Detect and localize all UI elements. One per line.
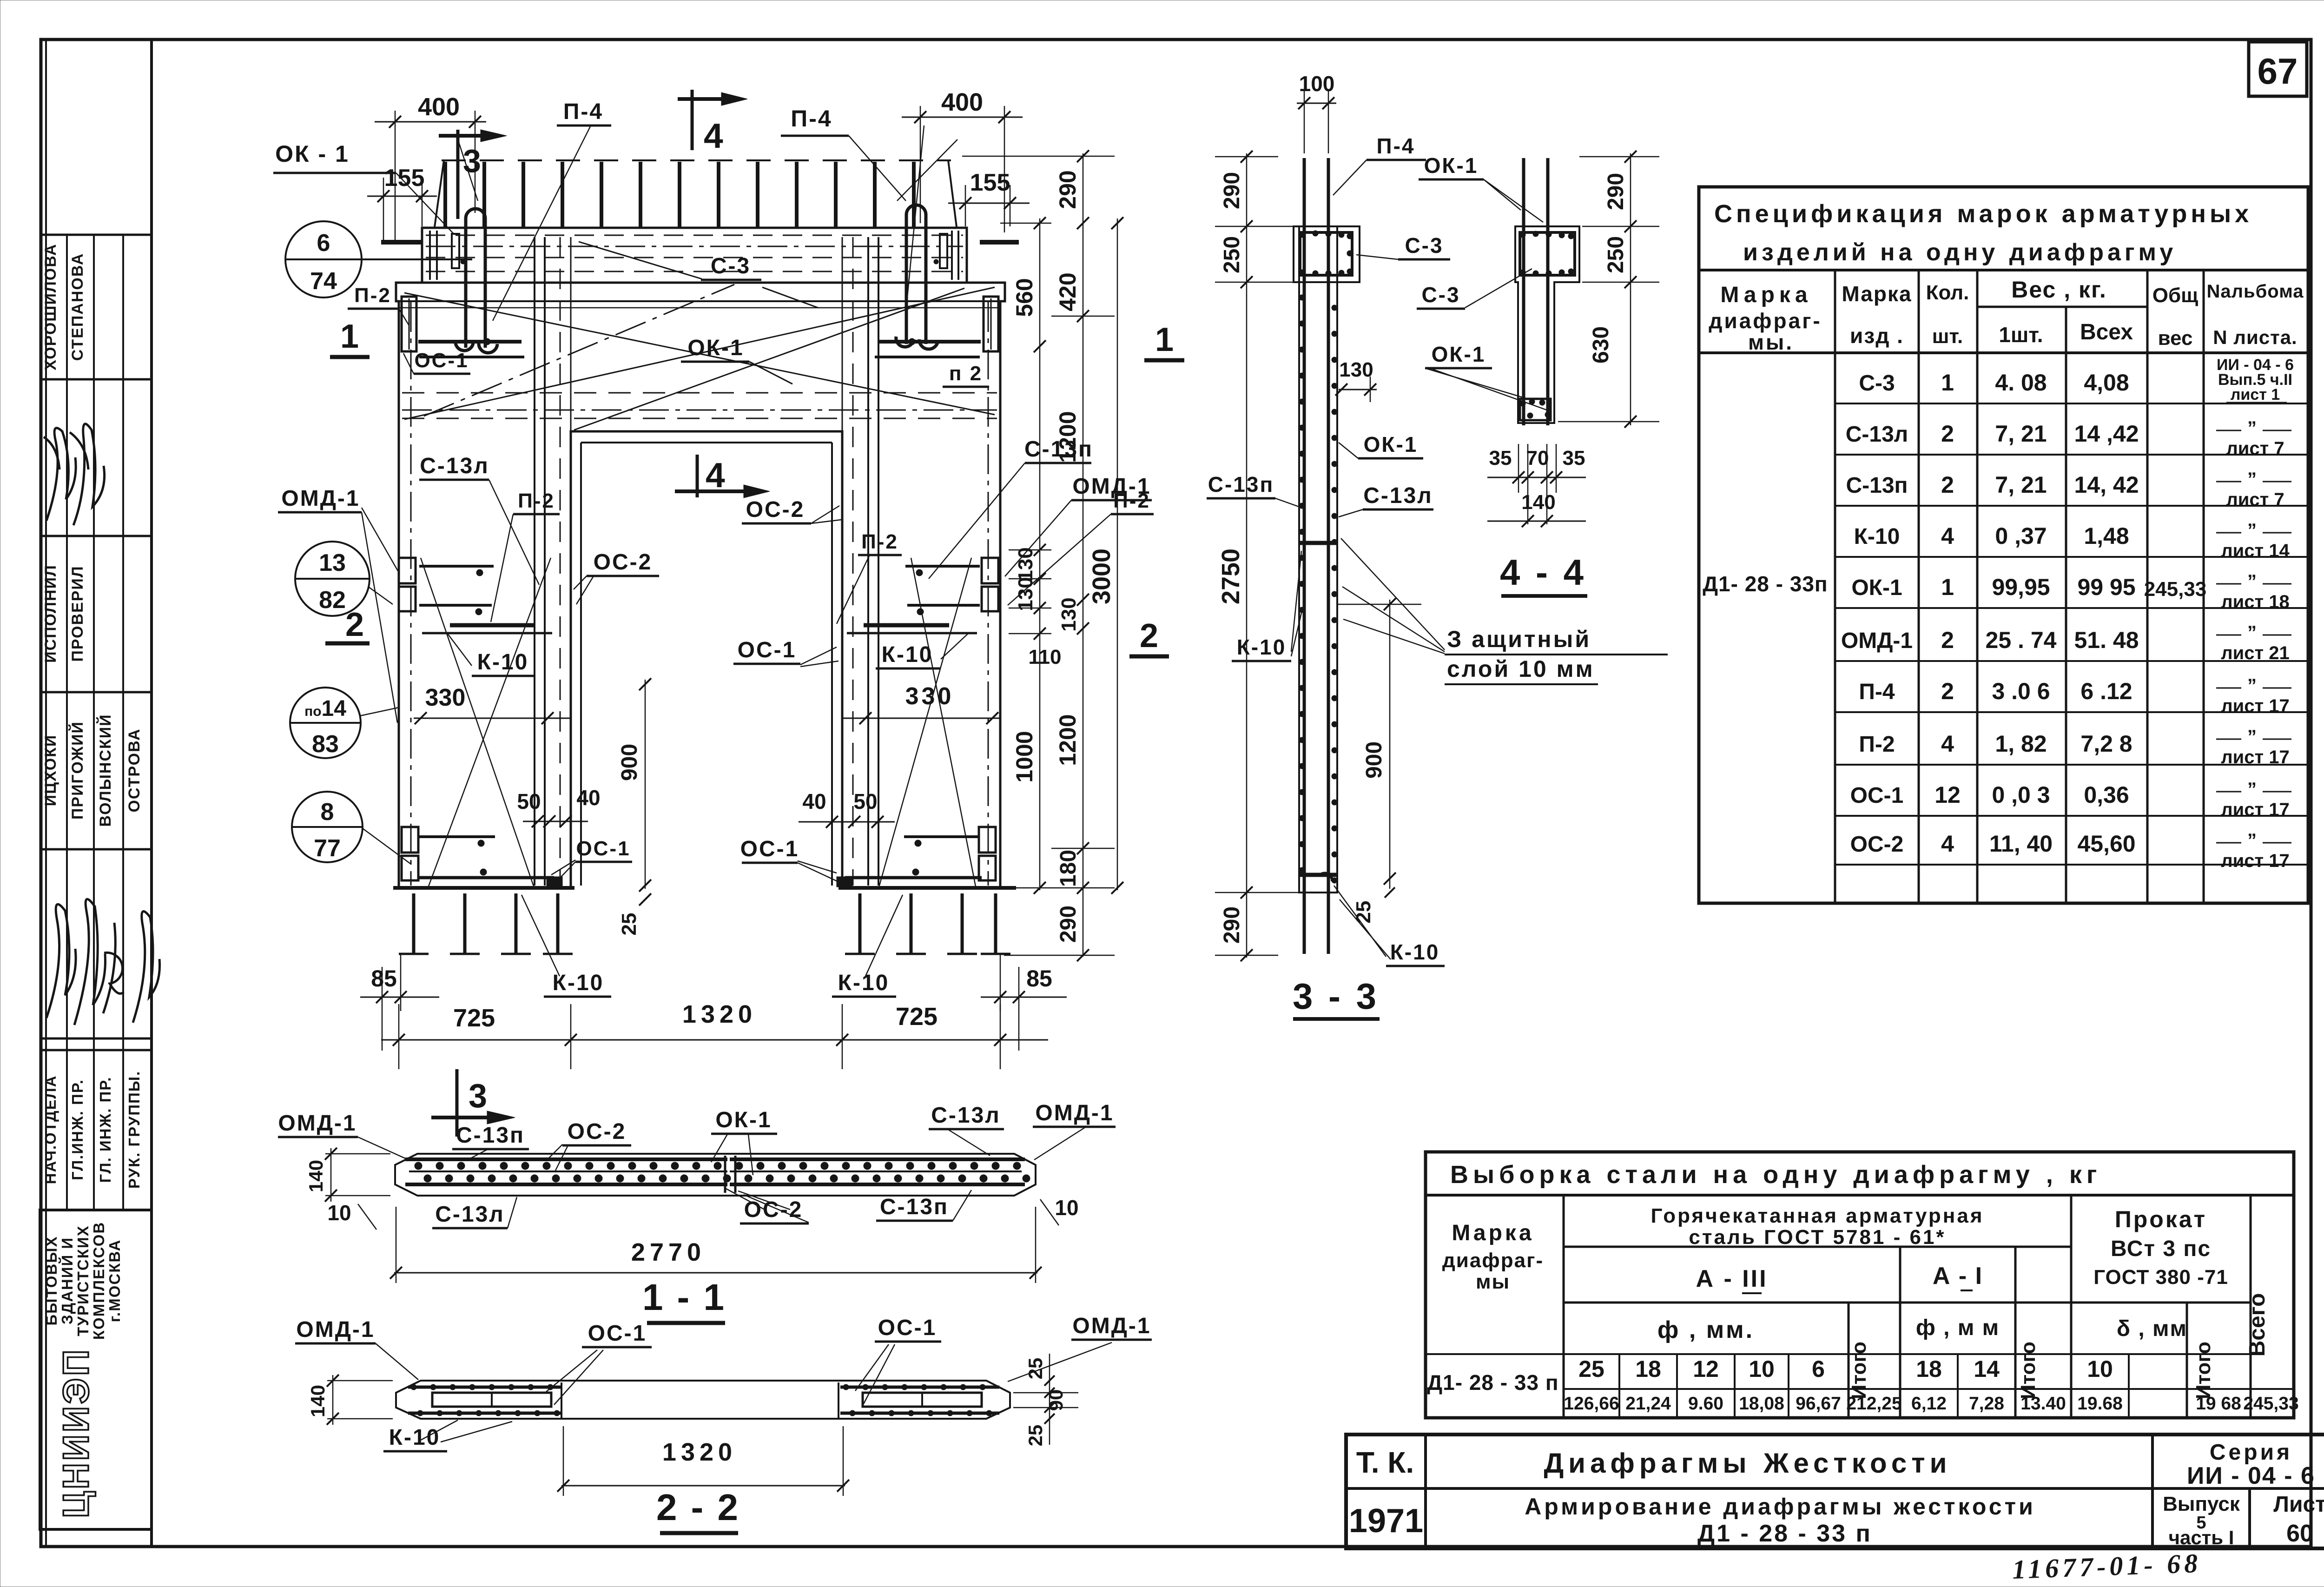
position circle 8/77 xyxy=(292,792,363,862)
svg-text:С-13л: С-13л xyxy=(420,454,489,478)
svg-text:П-2: П-2 xyxy=(1859,732,1895,757)
svg-text:2770: 2770 xyxy=(631,1238,706,1266)
slab keyway left xyxy=(452,234,459,268)
svg-text:ф , мм.: ф , мм. xyxy=(1657,1316,1754,1343)
svg-text:99 95: 99 95 xyxy=(2077,574,2135,600)
svg-text:2: 2 xyxy=(1941,678,1954,704)
svg-text:С-13л: С-13л xyxy=(1363,483,1433,508)
svg-text:ОС-2: ОС-2 xyxy=(594,550,653,575)
dim 330 left xyxy=(414,718,572,719)
svg-text:18: 18 xyxy=(1635,1356,1661,1382)
svg-text:35: 35 xyxy=(1489,447,1512,469)
svg-text:3 .0 6: 3 .0 6 xyxy=(1992,678,2050,704)
svg-text:диафраг-: диафраг- xyxy=(1442,1249,1544,1272)
svg-text:6: 6 xyxy=(1812,1356,1825,1382)
leader diagonals in legs xyxy=(421,558,535,889)
dim 900 left xyxy=(645,680,646,889)
svg-text:ПРИГОЖИЙ: ПРИГОЖИЙ xyxy=(68,721,86,820)
svg-text:1: 1 xyxy=(340,318,359,355)
dim 140 (1-1) xyxy=(330,1148,332,1202)
svg-text:ВОЛЫНСКИЙ: ВОЛЫНСКИЙ xyxy=(96,714,114,827)
svg-text:ИИ - 04 - 6: ИИ - 04 - 6 xyxy=(2187,1462,2315,1489)
corner spacer blob right xyxy=(837,877,852,887)
svg-text:лист 17: лист 17 xyxy=(2221,800,2289,820)
bottom main dim 725 1320 725 xyxy=(381,1039,1048,1041)
svg-text:19.68: 19.68 xyxy=(2077,1394,2123,1414)
svg-text:10: 10 xyxy=(1055,1196,1078,1220)
svg-text:9.60: 9.60 xyxy=(1688,1394,1723,1414)
svg-text:Диафрагмы Жесткости: Диафрагмы Жесткости xyxy=(1544,1448,1951,1479)
slab keyway right xyxy=(940,234,947,268)
svg-text:Итого: Итого xyxy=(2017,1342,2040,1399)
section 2-2 right cage xyxy=(840,1386,999,1389)
leader diagonals across beam xyxy=(404,293,995,415)
svg-text:С-3: С-3 xyxy=(711,254,751,278)
svg-text:лист 7: лист 7 xyxy=(2226,438,2284,459)
svg-text:290: 290 xyxy=(1056,906,1081,943)
svg-text:ВСт 3 пс: ВСт 3 пс xyxy=(2111,1237,2211,1261)
section 4-4 right dim chain xyxy=(1630,153,1631,425)
svg-text:25: 25 xyxy=(1352,901,1375,924)
elevation top key ticks band xyxy=(442,159,951,161)
svg-text:250: 250 xyxy=(1604,236,1628,273)
svg-text:4: 4 xyxy=(706,456,725,495)
P-2 channel left top xyxy=(402,297,416,351)
svg-text:П-2: П-2 xyxy=(354,284,391,307)
dim 400 left xyxy=(375,121,486,123)
svg-text:ИЦХОКИ: ИЦХОКИ xyxy=(42,734,59,807)
svg-text:77: 77 xyxy=(314,835,341,862)
section mark 3 top xyxy=(456,130,460,219)
svg-text:”: ” xyxy=(2247,571,2257,592)
svg-text:слой 10 мм: слой 10 мм xyxy=(1447,656,1595,682)
svg-text:4,08: 4,08 xyxy=(2084,370,2129,396)
svg-text:С-3: С-3 xyxy=(1405,233,1443,258)
svg-text:2 - 2: 2 - 2 xyxy=(656,1487,740,1528)
svg-text:П-4: П-4 xyxy=(791,106,832,132)
svg-text:1200: 1200 xyxy=(1055,411,1081,463)
sidebar signatures row 2 xyxy=(46,904,76,1018)
svg-text:С-3: С-3 xyxy=(1859,371,1895,396)
svg-text:1200: 1200 xyxy=(1055,714,1081,766)
svg-text:ОК-1: ОК-1 xyxy=(1432,342,1486,366)
svg-text:6 .12: 6 .12 xyxy=(2080,678,2132,704)
svg-text:83: 83 xyxy=(312,731,339,758)
svg-text:”: ” xyxy=(2247,779,2257,800)
elevation beam dashed rebar lines xyxy=(402,392,997,394)
svg-text:δ , мм: δ , мм xyxy=(2117,1316,2187,1341)
svg-text:140: 140 xyxy=(307,1385,329,1417)
section 4-4 bottom dims 35 70 35 xyxy=(1487,477,1586,478)
svg-text:Выборка стали на одну: Выборка стали на одну диафрагму , кг xyxy=(1450,1161,2101,1189)
svg-text:6,12: 6,12 xyxy=(1911,1394,1947,1414)
svg-text:Д1 - 28 - 33 п: Д1 - 28 - 33 п xyxy=(1697,1520,1872,1547)
svg-text:96,67: 96,67 xyxy=(1796,1394,1841,1414)
svg-text:14: 14 xyxy=(1974,1356,2000,1382)
elevation left shoulder xyxy=(396,283,422,888)
sidebar org box xyxy=(40,1210,152,1529)
svg-text:12: 12 xyxy=(1693,1356,1719,1382)
svg-text:ПРОВЕРИЛ: ПРОВЕРИЛ xyxy=(69,565,86,661)
svg-text:10: 10 xyxy=(1749,1356,1775,1382)
svg-text:ОМД-1: ОМД-1 xyxy=(1072,1314,1151,1338)
svg-text:2: 2 xyxy=(1941,421,1954,447)
svg-text:К-10: К-10 xyxy=(1237,635,1287,659)
svg-text:ОС-1: ОС-1 xyxy=(878,1316,937,1340)
svg-text:560: 560 xyxy=(1011,278,1037,317)
svg-text:К-10: К-10 xyxy=(1390,940,1440,964)
svg-text:Марка: Марка xyxy=(1452,1221,1534,1245)
svg-text:П-2: П-2 xyxy=(861,530,898,553)
svg-text:99,95: 99,95 xyxy=(1992,574,2050,600)
section 1-1 mesh bars right xyxy=(730,1157,1025,1161)
svg-text:Всех: Всех xyxy=(2080,320,2133,344)
section 4-4 rebar bars xyxy=(1522,158,1525,425)
svg-text:ОСТРОВА: ОСТРОВА xyxy=(125,728,143,812)
elevation right shoulder xyxy=(967,283,1005,888)
svg-text:Горячекатанная арматурная: Горячекатанная арматурная xyxy=(1651,1204,1984,1227)
svg-text:С-13л: С-13л xyxy=(931,1103,1001,1128)
svg-text:40: 40 xyxy=(802,789,826,813)
svg-text:3000: 3000 xyxy=(1088,549,1116,604)
section 3-3 left dim chain xyxy=(1246,153,1248,958)
svg-text:диафраг-: диафраг- xyxy=(1709,309,1822,333)
svg-text:”: ” xyxy=(2247,469,2257,489)
svg-text:N листа.: N листа. xyxy=(2213,326,2297,348)
svg-text:85: 85 xyxy=(371,965,397,992)
svg-text:мы.: мы. xyxy=(1748,330,1794,354)
svg-text:1,48: 1,48 xyxy=(2084,523,2129,549)
svg-text:П-4: П-4 xyxy=(1377,134,1415,158)
section 4-4 dim 140 xyxy=(1487,521,1586,522)
svg-text:0 ,0 3: 0 ,0 3 xyxy=(1992,782,2050,808)
svg-text:К-10: К-10 xyxy=(389,1425,441,1450)
svg-text:Д1- 28 - 33п: Д1- 28 - 33п xyxy=(1703,572,1828,596)
svg-text:лист 1: лист 1 xyxy=(2231,386,2280,403)
svg-text:лист 17: лист 17 xyxy=(2221,696,2289,716)
svg-text:ОС-1: ОС-1 xyxy=(740,837,799,861)
svg-text:С-13п: С-13п xyxy=(1208,472,1274,496)
svg-text:330: 330 xyxy=(905,683,954,710)
svg-text:лист 17: лист 17 xyxy=(2221,851,2289,871)
svg-text:Итого: Итого xyxy=(1848,1342,1870,1399)
svg-text:14, 42: 14, 42 xyxy=(2074,472,2139,498)
section 3-3 dim 100 xyxy=(1297,103,1336,104)
svg-text:ОС-2: ОС-2 xyxy=(568,1119,627,1144)
svg-text:Nальбома: Nальбома xyxy=(2206,281,2304,302)
svg-text:1000: 1000 xyxy=(1011,731,1037,782)
elevation right leg rebar verticals xyxy=(988,302,989,886)
section mark 4 middle xyxy=(696,455,699,497)
dim 330 right xyxy=(841,718,999,719)
svg-text:50: 50 xyxy=(517,789,541,813)
section mark 4 top xyxy=(691,90,694,150)
section 3-3 tie bars K-10 xyxy=(1299,541,1337,545)
svg-text:С-3: С-3 xyxy=(1421,283,1460,307)
svg-text:130: 130 xyxy=(1014,547,1037,581)
svg-text:Итого: Итого xyxy=(2192,1342,2215,1399)
svg-text:ОС-1: ОС-1 xyxy=(1850,783,1904,808)
right leg spacer bars xyxy=(878,340,981,344)
sidebar row lines xyxy=(41,234,152,236)
section 2-2 outline xyxy=(396,1381,1010,1419)
section 1-1 splice verticals xyxy=(724,1156,726,1193)
svg-text:3: 3 xyxy=(469,1078,487,1115)
svg-text:245,33: 245,33 xyxy=(2243,1394,2298,1414)
dim 1320 (2-2) xyxy=(561,1485,845,1487)
section mark 3 bottom xyxy=(456,1069,459,1137)
svg-text:лист 17: лист 17 xyxy=(2221,747,2289,767)
dim 140 (2-2) xyxy=(332,1375,334,1425)
dim 25 left xyxy=(639,893,651,906)
steel table frame xyxy=(1426,1152,2294,1418)
svg-text:0,36: 0,36 xyxy=(2084,782,2129,808)
svg-text:1320: 1320 xyxy=(662,1438,737,1466)
svg-text:725: 725 xyxy=(896,1003,938,1031)
svg-text:К-10: К-10 xyxy=(553,971,604,995)
elevation right leg base xyxy=(838,886,1016,890)
svg-text:лист 18: лист 18 xyxy=(2221,592,2289,612)
svg-text:Кол.: Кол. xyxy=(1926,281,1969,304)
svg-text:110: 110 xyxy=(1029,646,1062,668)
svg-text:330: 330 xyxy=(425,684,466,711)
svg-text:ОМД-1: ОМД-1 xyxy=(1841,628,1913,653)
right dims (2-2) xyxy=(1049,1354,1050,1445)
svg-text:4: 4 xyxy=(1941,523,1954,549)
svg-text:г.МОСКВА: г.МОСКВА xyxy=(106,1239,123,1322)
svg-text:35: 35 xyxy=(1563,447,1585,469)
svg-text:ИСПОЛНИЛ: ИСПОЛНИЛ xyxy=(42,564,59,663)
svg-text:130: 130 xyxy=(1014,577,1037,611)
svg-text:Прокат: Прокат xyxy=(2115,1206,2207,1232)
svg-text:ЦНИИЭП: ЦНИИЭП xyxy=(55,1348,96,1518)
svg-text:60: 60 xyxy=(2286,1520,2313,1547)
svg-text:1: 1 xyxy=(1155,321,1174,358)
svg-text:ОС-1: ОС-1 xyxy=(588,1321,647,1346)
svg-text:ОМД-1: ОМД-1 xyxy=(296,1317,375,1342)
svg-text:290: 290 xyxy=(1604,173,1628,210)
sidebar signatures row 1 xyxy=(44,428,76,521)
svg-text:”: ” xyxy=(2247,830,2257,851)
svg-text:”: ” xyxy=(2247,675,2257,696)
svg-text:725: 725 xyxy=(453,1004,495,1032)
svg-text:ОС-2: ОС-2 xyxy=(1850,832,1904,857)
svg-text:400: 400 xyxy=(418,93,460,121)
elevation right leg footing ticks xyxy=(858,893,862,954)
svg-text:ХОРОШИЛОВА: ХОРОШИЛОВА xyxy=(42,243,59,370)
svg-text:1, 82: 1, 82 xyxy=(1995,731,2047,757)
svg-text:”: ” xyxy=(2247,622,2257,643)
svg-text:8: 8 xyxy=(321,799,334,826)
svg-text:1: 1 xyxy=(1941,370,1954,396)
section 3-3 dim 900 xyxy=(1389,600,1391,889)
svg-text:18,08: 18,08 xyxy=(1739,1394,1784,1414)
svg-text:400: 400 xyxy=(941,88,983,116)
svg-text:НАЧ.ОТДЕЛА: НАЧ.ОТДЕЛА xyxy=(42,1075,59,1184)
svg-text:4: 4 xyxy=(1941,831,1954,857)
svg-text:Марка: Марка xyxy=(1842,282,1912,306)
svg-text:10: 10 xyxy=(2087,1356,2113,1382)
svg-text:11, 40: 11, 40 xyxy=(1989,831,2053,857)
section 4-4 outline xyxy=(1515,226,1579,423)
svg-text:Лист: Лист xyxy=(2273,1492,2324,1517)
svg-text:ОК - 1: ОК - 1 xyxy=(275,141,350,167)
svg-text:ГЛ.ИНЖ. ПР.: ГЛ.ИНЖ. ПР. xyxy=(69,1079,86,1180)
right dim chain 2 xyxy=(1083,153,1084,957)
svg-text:С-13л: С-13л xyxy=(1846,422,1908,447)
OMD-1 plate right upper xyxy=(982,558,998,583)
svg-text:290: 290 xyxy=(1055,170,1081,209)
svg-text:Спецификация марок арматур: Спецификация марок арматурных xyxy=(1714,200,2252,228)
svg-text:изд .: изд . xyxy=(1850,324,1904,348)
svg-text:155: 155 xyxy=(970,169,1010,196)
dim 50 40 left xyxy=(523,821,588,822)
section 4-4 foot dots xyxy=(1520,399,1551,420)
elevation top slab xyxy=(422,228,967,283)
svg-text:ГОСТ 380 -71: ГОСТ 380 -71 xyxy=(2093,1266,2228,1289)
svg-text:14 ,42: 14 ,42 xyxy=(2074,421,2139,447)
svg-text:67: 67 xyxy=(2258,51,2298,92)
svg-text:С-13п: С-13п xyxy=(1846,473,1908,498)
spec table row lines xyxy=(1835,403,2204,404)
svg-text:А - III: А - III xyxy=(1696,1265,1768,1292)
svg-text:25: 25 xyxy=(1024,1358,1046,1380)
svg-text:ОС-1: ОС-1 xyxy=(576,837,630,860)
svg-text:3: 3 xyxy=(463,143,481,179)
svg-text:КОМПЛЕКСОВ: КОМПЛЕКСОВ xyxy=(90,1222,107,1340)
svg-text:85: 85 xyxy=(1026,965,1052,992)
svg-text:ф , м м: ф , м м xyxy=(1916,1316,2000,1340)
svg-text:Общ: Общ xyxy=(2152,284,2199,307)
svg-text:лист 14: лист 14 xyxy=(2221,541,2290,561)
svg-text:212,25: 212,25 xyxy=(1846,1394,1901,1414)
svg-text:19 68: 19 68 xyxy=(2196,1394,2241,1414)
svg-text:ОК-1: ОК-1 xyxy=(1424,153,1479,178)
OMD-1 plate left upper xyxy=(399,558,416,583)
svg-text:630: 630 xyxy=(1589,326,1613,364)
svg-text:290: 290 xyxy=(1220,906,1244,944)
svg-text:82: 82 xyxy=(319,587,346,614)
svg-text:Т. К.: Т. К. xyxy=(1356,1446,1414,1479)
svg-text:0 ,37: 0 ,37 xyxy=(1995,523,2047,549)
svg-text:40: 40 xyxy=(576,786,600,810)
svg-text:1шт.: 1шт. xyxy=(1999,323,2043,347)
position circle 13/82 xyxy=(295,542,370,616)
svg-text:ОМД-1: ОМД-1 xyxy=(278,1111,357,1136)
dim 155 right xyxy=(948,203,1030,204)
svg-text:7, 21: 7, 21 xyxy=(1995,421,2047,447)
svg-text:часть I: часть I xyxy=(2169,1527,2234,1548)
svg-text:К-10: К-10 xyxy=(838,971,890,995)
section 3-3 dim 130 xyxy=(1339,389,1377,390)
svg-text:сталь ГОСТ 5781 - 61*: сталь ГОСТ 5781 - 61* xyxy=(1689,1226,1946,1249)
svg-text:4: 4 xyxy=(1941,731,1954,757)
elevation left leg base xyxy=(393,886,574,890)
svg-text:18: 18 xyxy=(1916,1356,1942,1382)
svg-text:10: 10 xyxy=(327,1201,351,1225)
svg-text:13.40: 13.40 xyxy=(2020,1394,2066,1414)
svg-text:П-4: П-4 xyxy=(1859,680,1895,704)
OMD-1 plate left lower xyxy=(402,827,418,853)
sidebar column lines xyxy=(66,235,68,1210)
svg-text:25 . 74: 25 . 74 xyxy=(1986,627,2057,653)
elevation opening xyxy=(571,431,842,888)
svg-text:”: ” xyxy=(2247,520,2257,541)
svg-text:4 - 4: 4 - 4 xyxy=(1500,552,1586,593)
svg-text:45,60: 45,60 xyxy=(2077,831,2135,857)
hairpin bar P-4 left xyxy=(466,209,485,348)
svg-text:П-2: П-2 xyxy=(1113,489,1150,512)
svg-text:900: 900 xyxy=(1362,741,1386,779)
right dim chain 1 xyxy=(1039,218,1041,890)
svg-text:ОС-2: ОС-2 xyxy=(746,497,805,522)
svg-text:50: 50 xyxy=(853,789,877,813)
svg-text:Выпуск: Выпуск xyxy=(2163,1493,2240,1515)
svg-text:лист 21: лист 21 xyxy=(2221,643,2289,663)
svg-text:130: 130 xyxy=(1339,358,1373,381)
svg-text:130: 130 xyxy=(1057,597,1080,631)
svg-text:А - I: А - I xyxy=(1933,1263,1983,1289)
sidebar right border xyxy=(150,40,153,1547)
svg-text:ГЛ. ИНЖ. ПР.: ГЛ. ИНЖ. ПР. xyxy=(97,1076,114,1183)
svg-text:К-10: К-10 xyxy=(477,650,529,674)
svg-text:изделий на одну диа: изделий на одну диафрагму xyxy=(1743,239,2177,266)
svg-text:140: 140 xyxy=(305,1160,327,1192)
svg-text:1 - 1: 1 - 1 xyxy=(642,1276,726,1318)
svg-text:ОК-1: ОК-1 xyxy=(1851,575,1902,600)
svg-text:РУК. ГРУППЫ.: РУК. ГРУППЫ. xyxy=(125,1071,143,1189)
OMD-1 plate right lower xyxy=(979,827,996,853)
svg-text:74: 74 xyxy=(310,268,337,295)
svg-text:25: 25 xyxy=(1578,1356,1604,1382)
svg-text:СТЕПАНОВА: СТЕПАНОВА xyxy=(69,253,86,361)
dim 85 right xyxy=(981,997,1067,998)
hairpin bar P-4 right xyxy=(906,205,926,344)
section 4-4 C-3 cage xyxy=(1520,232,1575,275)
svg-text:мы: мы xyxy=(1476,1270,1510,1293)
spec table frame xyxy=(1699,187,2308,903)
dim 85 left xyxy=(360,997,439,998)
svg-text:4: 4 xyxy=(704,116,723,155)
svg-text:900: 900 xyxy=(617,744,642,781)
svg-text:4. 08: 4. 08 xyxy=(1995,370,2047,396)
svg-text:25: 25 xyxy=(1024,1425,1046,1447)
elevation left leg rebar verticals xyxy=(410,302,412,886)
svg-text:Армирование диафрагмы жес: Армирование диафрагмы жесткости xyxy=(1525,1494,2036,1520)
svg-text:7, 21: 7, 21 xyxy=(1995,472,2047,498)
right slab end break bar xyxy=(980,240,1019,245)
dim 400 right xyxy=(902,117,1023,118)
corner spacer blob left xyxy=(547,877,562,887)
svg-text:З ащитный: З ащитный xyxy=(1447,626,1591,652)
svg-text:290: 290 xyxy=(1220,172,1244,209)
dim 40 50 right xyxy=(799,821,895,823)
svg-text:ОМД-1: ОМД-1 xyxy=(281,486,360,511)
svg-text:ОК-1: ОК-1 xyxy=(687,336,744,360)
section 1-1 mesh bars left xyxy=(405,1157,727,1161)
section 3-3 outline xyxy=(1299,226,1337,893)
svg-text:2: 2 xyxy=(1941,627,1954,653)
page number box 67 xyxy=(2249,42,2307,96)
svg-text:П-4: П-4 xyxy=(563,99,603,124)
svg-text:1: 1 xyxy=(1941,574,1954,600)
svg-text:12: 12 xyxy=(1934,782,1961,808)
svg-text:2750: 2750 xyxy=(1217,549,1245,604)
svg-text:Марка: Марка xyxy=(1720,283,1812,307)
svg-text:ОС-1: ОС-1 xyxy=(738,638,797,662)
svg-text:155: 155 xyxy=(384,165,425,192)
svg-text:Серия: Серия xyxy=(2210,1440,2292,1465)
